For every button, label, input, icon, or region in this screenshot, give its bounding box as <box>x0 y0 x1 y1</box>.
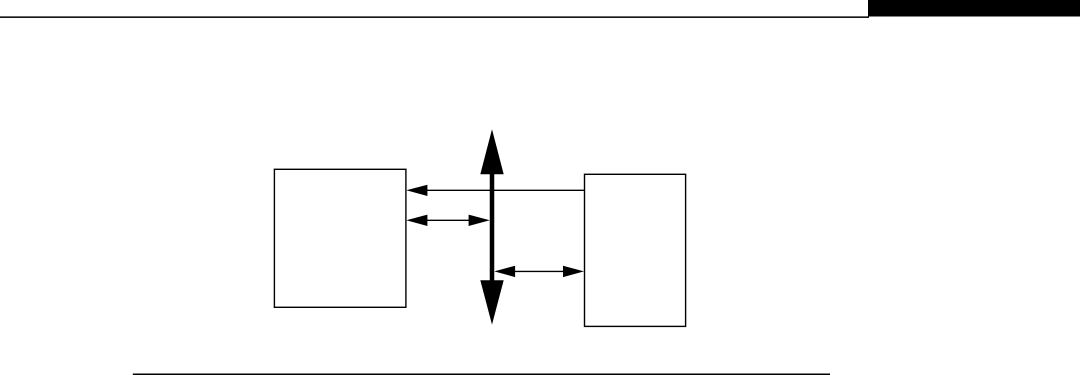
bus arrowhead down <box>480 280 503 324</box>
header rule <box>0 16 869 18</box>
wire low arrow head right <box>563 266 584 277</box>
wire mid double arrow line <box>422 219 474 221</box>
bus arrowhead up <box>480 129 503 174</box>
wire mid arrow head right <box>469 215 490 226</box>
header black tab <box>868 0 1080 17</box>
block right box <box>585 174 686 326</box>
wire mid arrow head left <box>406 215 427 226</box>
wire low double arrow line <box>510 270 568 272</box>
wire long arrow line <box>425 189 585 191</box>
footer rule <box>133 374 830 375</box>
wire low arrow head left <box>494 266 515 277</box>
bus vertical shaft <box>490 172 495 282</box>
block left box <box>274 169 406 307</box>
wire long arrow head left <box>406 185 427 196</box>
